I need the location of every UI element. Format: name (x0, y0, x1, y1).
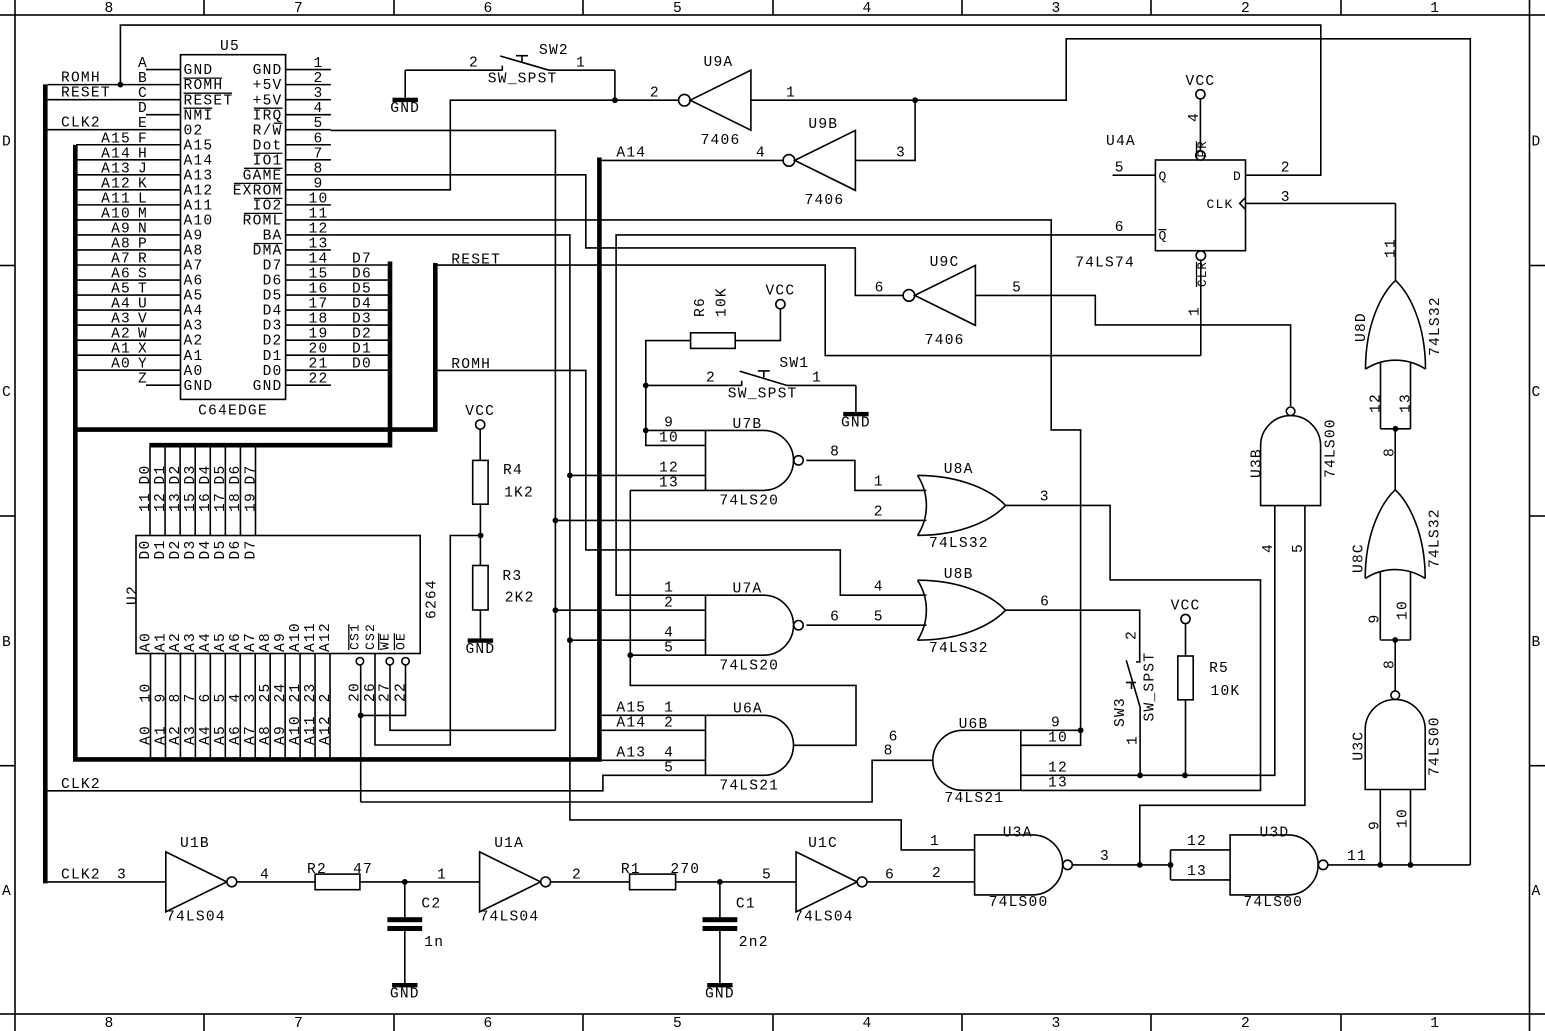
svg-text:A0: A0 (184, 364, 204, 380)
svg-text:A10: A10 (184, 214, 214, 230)
wire ROMH from bus to U5 pin B (48, 84, 146, 86)
svg-text:5: 5 (664, 641, 674, 657)
svg-text:74LS00: 74LS00 (1324, 418, 1340, 478)
svg-text:1: 1 (576, 56, 586, 72)
svg-text:A5: A5 (213, 632, 229, 652)
wire A13 bus tap to U6A pin 4 (602, 759, 706, 761)
svg-text:VCC: VCC (1185, 74, 1215, 90)
svg-text:A10: A10 (288, 622, 304, 652)
wire A14 bus tap to U6A pin 2 (602, 729, 706, 731)
svg-text:74LS20: 74LS20 (719, 494, 779, 510)
U5 pin Z (left) (146, 384, 181, 386)
svg-text:2: 2 (706, 371, 716, 387)
U5 pin V (left) (146, 324, 181, 326)
U5 pin D (left) (146, 114, 181, 116)
svg-text:74LS32: 74LS32 (929, 641, 989, 657)
svg-text:23: 23 (303, 683, 319, 703)
svg-text:D: D (1233, 169, 1242, 184)
svg-text:21: 21 (288, 683, 304, 703)
svg-text:24: 24 (273, 683, 289, 703)
svg-text:4: 4 (863, 1, 873, 17)
svg-text:A13: A13 (101, 161, 131, 177)
svg-text:A7: A7 (243, 725, 259, 745)
svg-text:21: 21 (309, 357, 329, 373)
svg-text:3: 3 (1281, 190, 1291, 206)
svg-text:17: 17 (309, 297, 329, 313)
svg-text:SW_SPST: SW_SPST (1142, 652, 1158, 722)
svg-text:74LS74: 74LS74 (1075, 256, 1135, 272)
svg-text:GND: GND (184, 379, 214, 395)
svg-text:1: 1 (437, 867, 447, 883)
U5 pin W (left) (146, 339, 181, 341)
wire CLK2 from bus to U5 pin E (48, 129, 146, 131)
svg-text:A4: A4 (198, 632, 214, 652)
svg-text:3: 3 (243, 693, 259, 703)
svg-text:A11: A11 (303, 622, 319, 652)
U4A pin 4 PR with VCC (1196, 151, 1205, 160)
svg-text:A9: A9 (273, 725, 289, 745)
svg-text:Z: Z (138, 372, 148, 388)
wire U3C output 8 up to U8C inputs (1394, 640, 1396, 691)
svg-text:2: 2 (572, 867, 582, 883)
svg-text:A15: A15 (616, 701, 646, 717)
wire U8B output 6 to SW3 pin 2 (1006, 610, 1140, 662)
svg-text:D5: D5 (263, 289, 283, 305)
ground GND at SW1 (855, 385, 857, 412)
NAND U3D 74LS00 (1230, 835, 1318, 895)
svg-text:10K: 10K (1211, 684, 1241, 700)
svg-text:47: 47 (353, 862, 373, 878)
svg-text:6: 6 (1115, 220, 1125, 236)
svg-text:D3: D3 (263, 319, 283, 335)
svg-text:B: B (2, 635, 12, 651)
U5 pin L (left) (146, 204, 181, 206)
svg-text:25: 25 (258, 683, 274, 703)
U5 pin 16 (right) (286, 294, 331, 296)
U5 pin U (left) (146, 309, 181, 311)
U5 pin 9 (right) (286, 189, 331, 191)
svg-text:3: 3 (314, 86, 324, 102)
svg-text:12: 12 (1369, 393, 1385, 413)
svg-text:U1A: U1A (494, 836, 524, 852)
svg-text:D0: D0 (263, 364, 283, 380)
svg-text:12: 12 (1048, 761, 1068, 777)
svg-text:OE: OE (393, 632, 408, 650)
svg-text:16: 16 (198, 492, 214, 512)
wire RESET from bus to U4A CLR (435, 265, 1201, 356)
U8D input pins 12/13 tied (1380, 362, 1382, 429)
svg-text:19: 19 (243, 492, 259, 512)
U5 pin K (left) (146, 189, 181, 191)
svg-text:U2: U2 (126, 585, 142, 605)
U5 pin 6 (right) (286, 144, 331, 146)
svg-text:1: 1 (314, 56, 324, 72)
U5 pin 7 (right) (286, 159, 331, 161)
svg-text:A11: A11 (101, 191, 131, 207)
wire R2 to U1A input (360, 881, 480, 883)
wire U3A output 3 to U3D pins and U3B pin 5 (1072, 864, 1171, 866)
svg-text:D6: D6 (228, 465, 244, 485)
U5 pin 10 (right) (286, 204, 331, 206)
svg-text:5: 5 (1012, 281, 1022, 297)
svg-text:EXROM: EXROM (233, 183, 283, 199)
svg-text:10: 10 (1396, 808, 1412, 828)
wire WE to R/W riser (390, 665, 555, 730)
wire EXROM from U5 pin 9 up to SW2 (331, 100, 679, 190)
svg-text:4: 4 (756, 146, 766, 162)
svg-text:D1: D1 (153, 540, 169, 560)
ground GND at SW2 (404, 70, 406, 98)
svg-text:9: 9 (1368, 614, 1384, 624)
svg-text:3: 3 (1100, 849, 1110, 865)
svg-text:10: 10 (659, 431, 679, 447)
frame row ticks left (0, 14, 15, 16)
wire A15 bus tap to U6A pin 1 (602, 714, 706, 716)
svg-text:GND: GND (253, 379, 283, 395)
svg-text:5: 5 (874, 610, 884, 626)
svg-text:11: 11 (1383, 238, 1399, 258)
ground GND at C1 (707, 983, 732, 987)
svg-text:1n: 1n (424, 935, 444, 951)
svg-text:R4: R4 (503, 463, 523, 479)
svg-text:IO2: IO2 (253, 198, 283, 214)
svg-text:5: 5 (1291, 543, 1307, 553)
svg-text:1: 1 (874, 475, 884, 491)
svg-text:D5: D5 (213, 465, 229, 485)
svg-text:5: 5 (673, 1, 683, 17)
U6B pin 12 line to SW3/R5/U3B (1021, 506, 1275, 776)
svg-text:D3: D3 (183, 465, 199, 485)
svg-text:PR: PR (1196, 140, 1210, 157)
svg-text:D7: D7 (263, 259, 283, 275)
svg-text:U3B: U3B (1249, 448, 1265, 478)
U5 pin 5 (right) (286, 129, 331, 131)
U7A pin 4 line (570, 639, 706, 641)
svg-text:A7: A7 (243, 632, 259, 652)
svg-text:7406: 7406 (925, 333, 965, 349)
svg-text:13: 13 (1399, 393, 1415, 413)
svg-text:D3: D3 (183, 540, 199, 560)
svg-text:SW_SPST: SW_SPST (488, 72, 558, 88)
U5 pin Y (left) (146, 369, 181, 371)
svg-text:D0: D0 (138, 540, 154, 560)
svg-text:D0: D0 (138, 465, 154, 485)
svg-text:8: 8 (105, 1016, 115, 1031)
U5 pin X (left) (146, 354, 181, 356)
svg-text:10K: 10K (715, 287, 731, 317)
svg-text:A0: A0 (138, 725, 154, 745)
svg-text:D2: D2 (352, 327, 372, 343)
svg-text:1K2: 1K2 (504, 486, 534, 502)
switch SW3 SW_SPST vertical (1136, 661, 1141, 663)
svg-text:SW2: SW2 (539, 43, 569, 59)
svg-text:D1: D1 (352, 342, 372, 358)
OR U8D 74LS32 pointing up (1366, 360, 1426, 369)
svg-text:R/W: R/W (253, 123, 283, 139)
wire U9A/U9B joined outputs to right riser (751, 39, 1470, 865)
svg-text:D4: D4 (263, 304, 283, 320)
U5 pin 11 (right) (286, 219, 331, 221)
U6B pin 9 line (1021, 729, 1081, 731)
svg-text:2: 2 (1241, 1, 1251, 17)
svg-text:GAME: GAME (243, 168, 283, 184)
svg-text:A2: A2 (111, 327, 131, 343)
svg-text:A3: A3 (183, 632, 199, 652)
svg-text:A5: A5 (184, 289, 204, 305)
svg-text:U9A: U9A (704, 55, 734, 71)
power VCC at R6 (776, 300, 785, 309)
resistor R6 10K (691, 333, 736, 349)
svg-text:SW_SPST: SW_SPST (728, 386, 798, 402)
svg-text:9: 9 (1368, 820, 1384, 830)
svg-text:5: 5 (213, 693, 229, 703)
svg-text:A2: A2 (184, 334, 204, 350)
wire R6 to SW1 and U7B pins 9/10 (646, 341, 706, 446)
U4A pin 3 CLK input with wedge (1246, 202, 1396, 204)
svg-text:A4: A4 (184, 304, 204, 320)
svg-text:A: A (2, 884, 12, 900)
AND U6A 74LS21 (706, 715, 794, 775)
wire U7A output 6 to U8B pin 5 (806, 624, 926, 626)
svg-text:1: 1 (930, 834, 940, 850)
svg-text:1: 1 (812, 371, 822, 387)
svg-text:A6: A6 (228, 725, 244, 745)
resistor R1 270 (630, 874, 676, 890)
U7B pin 12 line from BA riser (570, 474, 706, 476)
NAND U7A 74LS20 (706, 595, 794, 655)
svg-text:3: 3 (1052, 1, 1062, 17)
svg-text:12: 12 (153, 492, 169, 512)
svg-text:A14: A14 (616, 716, 646, 732)
svg-text:U8A: U8A (944, 462, 974, 478)
svg-text:74LS21: 74LS21 (945, 791, 1005, 807)
svg-text:D4: D4 (198, 465, 214, 485)
svg-text:CS1: CS1 (348, 623, 363, 650)
svg-text:R3: R3 (502, 569, 522, 585)
svg-text:18: 18 (309, 312, 329, 328)
svg-text:A10: A10 (101, 206, 131, 222)
svg-text:A12: A12 (318, 715, 334, 745)
U5 pin B (left) (146, 84, 181, 86)
svg-text:12: 12 (1187, 834, 1207, 850)
svg-text:2: 2 (1281, 161, 1291, 177)
svg-text:1: 1 (664, 701, 674, 717)
svg-text:DMA: DMA (253, 244, 283, 260)
svg-text:A8: A8 (258, 632, 274, 652)
wire U3D output 11 to U3C inputs (1327, 864, 1470, 866)
wire ROML from U5 pin 11 across to U6B (331, 220, 1081, 745)
svg-text:11: 11 (309, 206, 329, 222)
svg-text:D2: D2 (168, 540, 184, 560)
U5 pin 14 (right) (286, 264, 331, 266)
resistor R3 2K2 (473, 566, 488, 611)
svg-text:GND: GND (184, 63, 214, 79)
svg-text:R2: R2 (307, 862, 327, 878)
bus address vertical/horizontal A0-A15 (75, 145, 599, 760)
svg-text:22: 22 (309, 372, 329, 388)
svg-text:11: 11 (138, 492, 154, 512)
wire CLK2 tap to U1B input (48, 881, 166, 883)
svg-text:4: 4 (260, 867, 270, 883)
U5 pin S (left) (146, 279, 181, 281)
svg-text:A0: A0 (138, 632, 154, 652)
OR U8C 74LS32 pointing up (1365, 570, 1425, 579)
svg-text:16: 16 (309, 282, 329, 298)
svg-text:8: 8 (314, 161, 324, 177)
svg-text:8: 8 (1382, 659, 1398, 669)
svg-text:13: 13 (1048, 776, 1068, 792)
svg-text:RESET: RESET (61, 86, 111, 102)
U4A pin 6 Q! wire to U7A pin 1 (616, 235, 1155, 595)
wire U8D output 11 up to U4A CLK (1395, 203, 1397, 280)
svg-text:A5: A5 (111, 282, 131, 298)
svg-text:U7B: U7B (733, 417, 763, 433)
U8C input pins 9/10 tied (1379, 572, 1381, 641)
svg-text:5: 5 (314, 116, 324, 132)
svg-text:D4: D4 (198, 540, 214, 560)
svg-text:A9: A9 (184, 229, 204, 245)
svg-text:4: 4 (1261, 543, 1277, 553)
svg-text:74LS32: 74LS32 (1428, 296, 1444, 356)
switch SW2 SW_SPST (405, 69, 501, 71)
svg-text:4: 4 (874, 580, 884, 596)
svg-text:A3: A3 (183, 725, 199, 745)
U5 pin N (left) (146, 234, 181, 236)
U5 pin M (left) (146, 219, 181, 221)
svg-text:74LS00: 74LS00 (1243, 895, 1303, 911)
wire D7-D0 from U5 pins 14-21 to data bus (331, 264, 388, 266)
power VCC at R4 (476, 420, 485, 429)
svg-text:IRQ: IRQ (253, 108, 283, 124)
svg-text:CLK2: CLK2 (61, 867, 101, 883)
svg-text:SW3: SW3 (1113, 697, 1129, 727)
svg-text:9: 9 (153, 693, 169, 703)
svg-text:4: 4 (314, 101, 324, 117)
svg-text:1: 1 (1430, 1016, 1440, 1031)
inverter U1C 74LS04 (796, 852, 857, 912)
svg-text:2: 2 (650, 86, 660, 102)
RAM U2 6264 body (136, 536, 420, 654)
wire CS1 down to U6B output net (360, 665, 362, 802)
svg-text:U1C: U1C (808, 836, 838, 852)
svg-text:R5: R5 (1209, 661, 1229, 677)
svg-text:8: 8 (884, 744, 894, 760)
svg-text:U8C: U8C (1351, 543, 1367, 573)
svg-text:U6A: U6A (733, 702, 763, 718)
svg-text:A6: A6 (228, 632, 244, 652)
svg-text:A1: A1 (184, 349, 204, 365)
svg-text:SW1: SW1 (779, 356, 809, 372)
resistor R2 47 (315, 874, 360, 890)
svg-text:74LS32: 74LS32 (929, 536, 989, 552)
U4A pin 5 Q stub (1113, 174, 1156, 176)
svg-text:CLK: CLK (1206, 197, 1233, 212)
U5 pin F (left) (146, 144, 181, 146)
svg-text:2: 2 (1241, 1016, 1251, 1031)
svg-text:74LS20: 74LS20 (719, 658, 779, 674)
svg-text:U3D: U3D (1260, 826, 1290, 842)
U5 pin A (left) (146, 69, 181, 71)
U4A pin 1 CLR (1196, 251, 1205, 260)
inverter U9A 7406 (679, 94, 691, 106)
svg-text:4: 4 (664, 746, 674, 762)
U5 pin 8 (right) (286, 174, 331, 176)
svg-text:A11: A11 (303, 715, 319, 745)
bus ROMH/RESET/CLK2 vertical left (43, 84, 48, 883)
svg-text:D7: D7 (243, 540, 259, 560)
svg-text:A1: A1 (153, 725, 169, 745)
U5 pin H (left) (146, 159, 181, 161)
svg-text:8: 8 (1382, 447, 1398, 457)
svg-text:7: 7 (314, 146, 324, 162)
U5 pin E (left) (146, 129, 181, 131)
svg-text:U5: U5 (220, 39, 240, 55)
svg-text:A9: A9 (273, 632, 289, 652)
OR U8A 74LS32 (918, 475, 927, 535)
svg-text:A: A (138, 56, 148, 72)
svg-text:D2: D2 (168, 465, 184, 485)
svg-text:14: 14 (309, 251, 329, 267)
U3D pins 12/13 tied to U3A output (1171, 849, 1231, 851)
wire U6A output 6 up to U7A pin 5 riser (630, 655, 856, 745)
wire BA from U5 pin 12 down mid column (331, 235, 975, 850)
U5 pin 22 (right) (286, 384, 331, 386)
svg-text:C: C (2, 385, 12, 401)
svg-text:A10: A10 (288, 715, 304, 745)
switch SW1 SW_SPST (646, 384, 742, 386)
svg-text:ROMH: ROMH (184, 78, 224, 94)
U2 data pins D0-D7 top (149, 448, 151, 536)
svg-text:2: 2 (314, 71, 324, 87)
svg-text:GND: GND (465, 642, 495, 658)
svg-text:8: 8 (830, 445, 840, 461)
svg-text:74LS00: 74LS00 (989, 895, 1049, 911)
wire VCC to R6 (735, 309, 780, 341)
svg-text:ROMH: ROMH (451, 357, 491, 373)
U5 pin 3 (right) (286, 99, 331, 101)
svg-text:10: 10 (1396, 600, 1412, 620)
svg-text:U3A: U3A (1003, 826, 1033, 842)
svg-text:D0: D0 (352, 357, 372, 373)
svg-text:A7: A7 (184, 259, 204, 275)
svg-text:8: 8 (168, 693, 184, 703)
svg-text:CLK2: CLK2 (61, 116, 101, 132)
U5 pin 15 (right) (286, 279, 331, 281)
svg-text:A13: A13 (616, 746, 646, 762)
svg-text:8: 8 (105, 1, 115, 17)
svg-text:VCC: VCC (765, 284, 795, 300)
svg-text:Dot: Dot (253, 138, 283, 154)
svg-text:A12: A12 (184, 183, 214, 199)
NAND U3A 74LS00 (975, 835, 1063, 895)
wire CS2 to divider node (375, 536, 481, 746)
wire U8A output 3 to U6B pin 13 (1006, 505, 1261, 790)
U7B pin 9 line (646, 429, 706, 431)
svg-text:U1B: U1B (180, 836, 210, 852)
wire CLK2 to U6A pin 5 (48, 775, 706, 791)
svg-text:13: 13 (168, 492, 184, 512)
svg-text:26: 26 (363, 682, 379, 702)
svg-text:A8: A8 (258, 725, 274, 745)
inverter U1B 74LS04 (166, 852, 227, 912)
inverter U9C 7406 (903, 290, 915, 302)
svg-text:13: 13 (659, 476, 679, 492)
svg-text:13: 13 (1187, 864, 1207, 880)
svg-text:ROMH: ROMH (61, 71, 101, 87)
U5 pin J (left) (146, 174, 181, 176)
svg-text:12: 12 (659, 461, 679, 477)
svg-text:GND: GND (253, 63, 283, 79)
